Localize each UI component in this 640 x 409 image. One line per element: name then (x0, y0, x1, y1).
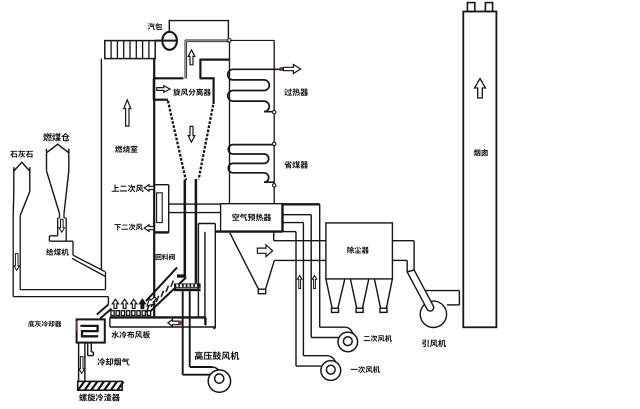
label 燃煤仓 (43, 133, 70, 141)
label 一次风机 (351, 366, 380, 373)
node economizer outlet (273, 184, 276, 187)
induced draft fan outlet (426, 290, 460, 292)
flue duct to dust collector (274, 240, 326, 242)
node superheater outlet (273, 111, 276, 114)
steam outlet arrow (283, 65, 300, 74)
cyclone funnel left wall (168, 101, 186, 181)
label 底灰冷却器 (28, 321, 61, 327)
right arrow furnace to cyclone (157, 86, 170, 93)
coal feed belt (73, 255, 105, 271)
small up arrow in air duct 1 (297, 275, 302, 288)
cyclone top edge (153, 77, 183, 79)
chimney top tabs (467, 3, 474, 12)
thin steam duct from node to cyclone outlet (185, 39, 229, 41)
backpass right wall (273, 40, 275, 203)
label 省煤器 (284, 161, 308, 169)
windbox top plate (110, 316, 206, 318)
junction node at top of backpass (227, 39, 231, 43)
furnace left wall (100, 59, 102, 270)
induced draft fan inlet duct (407, 270, 434, 311)
coal bunker (燃煤仓) (46, 149, 48, 171)
cooler coil (80, 326, 98, 336)
label 旋风分离器 (173, 88, 211, 95)
backpass ash hopper (230, 233, 259, 289)
flue duct step (273, 232, 275, 241)
chimney (烟囱) (463, 12, 496, 328)
ash chute from furnace (107, 297, 109, 305)
limestone hopper (石灰石) (13, 167, 15, 191)
primary air fan (一次风机) (321, 361, 341, 381)
arrow tail block (179, 321, 182, 326)
primary air arrow in windbox (168, 320, 179, 327)
small up arrow in air duct 2 (312, 275, 317, 288)
label 汽包 (148, 23, 163, 30)
up arrow in chimney (475, 79, 486, 98)
air ducts right of preheater (283, 203, 320, 205)
furnace right wall (153, 59, 155, 318)
label 下二次风 (114, 224, 142, 231)
cyclone gas outlet duct (199, 59, 201, 79)
dust collector box (除尘器) (326, 223, 393, 279)
label 冷却烟气 (97, 358, 129, 366)
down arrow to screw cooler (79, 357, 85, 374)
ash downcomer to screw cooler (78, 343, 80, 382)
bottom feed duct (20, 289, 105, 291)
windbox left wall (109, 317, 111, 327)
down arrow in coal pipe (59, 219, 64, 232)
high pressure blower (高压鼓风机) (208, 370, 230, 392)
node economizer inlet (273, 142, 276, 145)
high pressure air pipe (182, 291, 184, 375)
superheater coil (过热器) (228, 69, 282, 111)
windbox bottom (110, 326, 214, 328)
steam outlet pipe from drum (169, 21, 228, 39)
down arrow in cyclone cone (188, 126, 195, 142)
air duct preheater to furnace (169, 203, 221, 205)
flue gas arrow to dust collector (257, 245, 272, 257)
cooler drain tube (87, 343, 89, 356)
bottom ash cooler box (底灰冷却器) (77, 319, 105, 342)
up arrow in cyclone outlet (188, 50, 195, 65)
loop seal weir hook (177, 274, 186, 277)
air duct risers to fans (295, 232, 297, 367)
air ducts left of preheater to windbox (197, 224, 199, 318)
high pressure blower duct (190, 366, 213, 368)
cyclone standpipe (184, 180, 187, 275)
down arrow in limestone pipe (14, 254, 19, 271)
limestone feed pipe (12, 216, 14, 297)
return leg to furnace (146, 267, 177, 301)
label 高压鼓风机 (195, 351, 239, 360)
label 给煤机 (46, 248, 69, 255)
label 水冷布风板 (111, 331, 150, 338)
backpass left wall (229, 42, 231, 204)
label 上二次风 (112, 185, 144, 193)
label 空气预热器 (232, 213, 271, 221)
secondary air branch ducting (154, 184, 169, 186)
label 石灰石 (10, 150, 33, 157)
secondary air fan (二次风机) (338, 332, 358, 352)
primary air fan duct (303, 355, 327, 357)
upper secondary air arrow (上二次风) (144, 185, 154, 192)
cyclone funnel right wall (199, 105, 214, 180)
label 烟囱 (474, 149, 488, 156)
lower secondary air arrow (下二次风) (144, 225, 154, 232)
cyclone left wall (153, 78, 155, 99)
windbox right steps (205, 317, 207, 325)
steam terminal square (280, 67, 284, 71)
steam drum (汽包) (162, 32, 177, 50)
air preheater box (空气预热器) (220, 204, 222, 232)
economizer coil (省煤器) (228, 145, 274, 183)
dust collector outlet duct (392, 240, 414, 242)
coal downcomer (59, 214, 61, 218)
cyclone right wall (213, 78, 215, 104)
up arrows above grid (112, 299, 118, 308)
label 螺旋冷渣器 (79, 394, 120, 402)
backpass top edge (230, 39, 274, 41)
label 燃烧室 (115, 145, 138, 152)
label 回料阀 (156, 254, 175, 260)
label 过热器 (284, 88, 308, 96)
screw slag cooler (螺旋冷渣器) (78, 381, 122, 390)
induced draft fan casing (引风机) (420, 301, 446, 327)
distributor nozzles (111, 311, 114, 316)
secondary air fan duct (320, 326, 346, 328)
cyclone inlet ledge (154, 99, 168, 101)
loop seal distributor comb (174, 283, 201, 287)
coal feeder steps (给煤机) (49, 235, 57, 237)
label 除尘器 (347, 247, 369, 254)
dust collector hopper 3 (374, 279, 380, 308)
dust collector hopper 1 (326, 279, 332, 308)
hatched header on top of furnace (155, 40, 177, 42)
up arrow in furnace (124, 100, 131, 126)
label 引风机 (422, 339, 446, 347)
label 二次风机 (364, 335, 392, 342)
solids flow arrow in return leg (147, 297, 156, 306)
dust collector hopper 2 (350, 279, 356, 308)
